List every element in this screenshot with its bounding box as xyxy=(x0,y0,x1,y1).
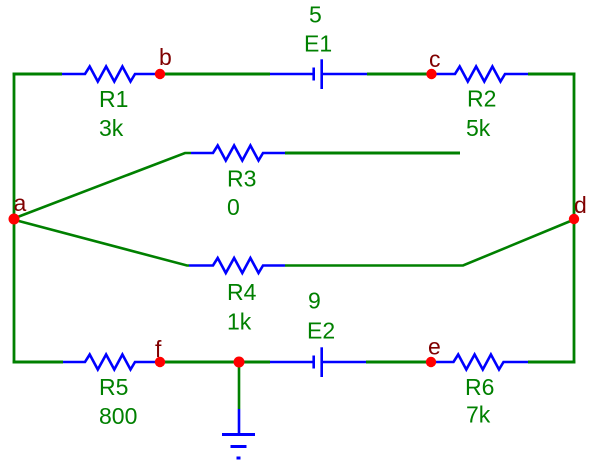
svg-text:a: a xyxy=(14,190,27,216)
svg-text:R3: R3 xyxy=(227,166,256,192)
wire E2 to e xyxy=(366,361,431,364)
svg-text:d: d xyxy=(574,192,587,218)
wire bottom-left to R5 xyxy=(13,361,63,364)
resistor R2 xyxy=(432,67,529,142)
node a xyxy=(9,190,27,225)
resistor R5 xyxy=(63,355,160,430)
svg-text:R5: R5 xyxy=(99,374,128,400)
node e xyxy=(426,334,441,368)
resistor R1 xyxy=(62,67,160,142)
svg-text:3k: 3k xyxy=(99,115,124,141)
battery E1 xyxy=(270,2,367,90)
wire left vertical a-top-bottom xyxy=(13,73,16,364)
wire a to R4 diagonal xyxy=(15,220,189,266)
node c xyxy=(426,46,440,79)
wire R3 right (open end) xyxy=(285,152,460,155)
wire top-left to R1 xyxy=(13,73,62,76)
svg-text:1k: 1k xyxy=(227,309,252,335)
svg-text:0: 0 xyxy=(227,194,240,220)
svg-text:5k: 5k xyxy=(466,115,491,141)
node d xyxy=(569,192,587,224)
node b xyxy=(155,44,172,79)
wire R4 to d diagonal xyxy=(285,220,573,266)
resistor R6 xyxy=(431,355,528,428)
ground xyxy=(222,409,255,458)
svg-text:c: c xyxy=(429,46,441,72)
wire right vertical d-top-bottom xyxy=(573,73,576,364)
svg-text:R6: R6 xyxy=(465,374,494,400)
svg-text:e: e xyxy=(428,334,441,360)
svg-text:R4: R4 xyxy=(227,279,257,305)
wire gnd junction down xyxy=(238,362,241,409)
wire E1 to c xyxy=(367,73,432,76)
svg-text:800: 800 xyxy=(99,403,137,429)
wire R2 to top-right corner xyxy=(528,73,575,76)
svg-text:R2: R2 xyxy=(467,86,496,112)
svg-text:5: 5 xyxy=(309,2,322,28)
node gnd junction xyxy=(234,357,245,368)
svg-text:7k: 7k xyxy=(466,402,491,428)
wire b to E1 xyxy=(160,73,270,76)
svg-text:9: 9 xyxy=(308,288,321,314)
battery E2 xyxy=(270,288,366,378)
node f xyxy=(155,336,165,367)
wire a to R3 diagonal xyxy=(15,153,191,218)
wire f to gnd junction to E2 xyxy=(160,361,270,364)
svg-text:E1: E1 xyxy=(304,31,332,57)
wire R6 to bottom-right corner xyxy=(528,361,575,364)
svg-text:b: b xyxy=(159,44,172,70)
svg-text:E2: E2 xyxy=(307,318,335,344)
svg-text:R1: R1 xyxy=(99,86,128,112)
resistor R3 xyxy=(191,146,285,221)
svg-text:f: f xyxy=(155,336,162,362)
resistor R4 xyxy=(189,258,285,335)
